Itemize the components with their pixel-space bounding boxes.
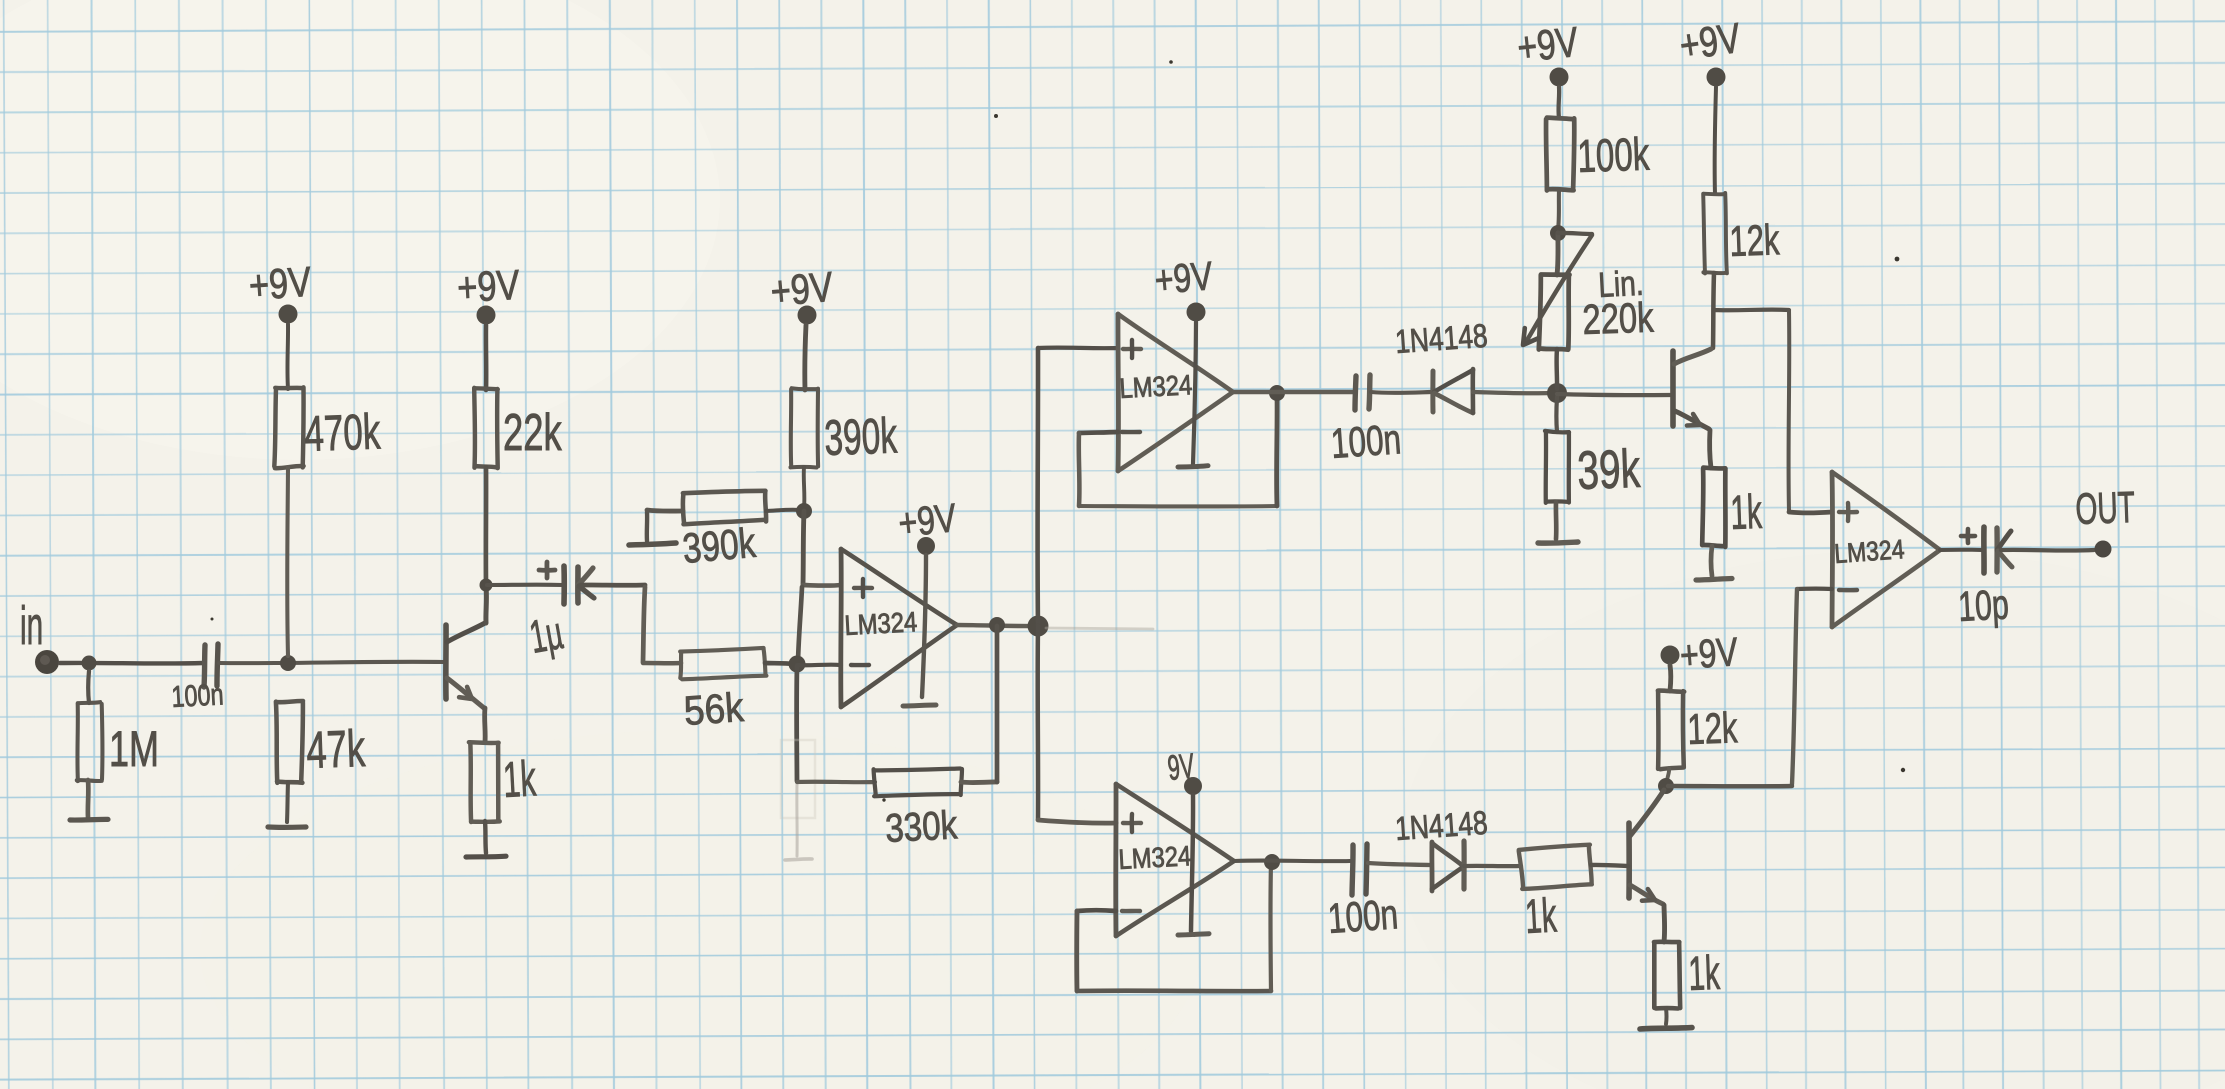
svg-text:12k: 12k [1687,703,1739,753]
wire D1 to pot node [1473,392,1552,393]
wire input to C1 [60,661,203,666]
capacitor C2 1u (polarized) [539,562,594,604]
label 12k (top) [1729,215,1781,265]
svg-text:100k: 100k [1577,129,1651,182]
svg-text:+9V: +9V [1153,253,1215,303]
resistor 12k (top) [1703,193,1727,273]
svg-text:390k: 390k [681,520,758,573]
label 1N4148 (lower) [1394,805,1489,848]
resistor 1k (Q3) [1654,942,1680,1009]
resistor 390k (vertical) [791,388,819,467]
wire corner to U3 [1789,510,1832,516]
wire Q3 node right [1668,784,1792,789]
wire stub to R-390k-h [647,510,683,511]
wire 1M to ground [86,780,91,817]
power +9V (U1) [896,495,958,555]
svg-text:LM324: LM324 [844,605,918,641]
junction U1out/branch [1028,616,1049,637]
label LM324 U4 [1118,839,1192,875]
ground (47k) [268,824,306,830]
label OUT [2075,483,2136,534]
power +9V (12k bottom) [1661,629,1740,678]
wire down right column to U3 +in [1787,311,1792,511]
ground (Q2 1k) [1696,579,1732,581]
wire U2 feedback up [1274,393,1279,506]
wire -node to U1 [797,663,841,668]
op-amp U2 triangle [1118,314,1233,471]
wire 1k to ground (Q3) [1664,1008,1669,1024]
wire 1k to ground [485,821,486,853]
wire +9V to R-100k [1556,87,1561,118]
wire D2 to R-1k [1464,864,1521,869]
label 1k (horizontal) [1524,889,1559,943]
wire U3 out [1940,548,1982,552]
label 1k (Q1) [502,750,538,808]
junction U2 out/feedback [1269,385,1285,401]
transistor Q1 base bar [443,625,449,699]
svg-text:1k: 1k [502,750,538,808]
op-amp U1 triangle [841,549,957,707]
wire U4 feedback bottom [1077,988,1271,993]
wire C1 to Q1 base [219,662,444,663]
diode D2 1N4148 (cathode right) [1432,841,1464,891]
svg-text:100n: 100n [1329,415,1402,467]
wire R-39k to ground [1554,502,1559,539]
svg-text:56k: 56k [683,685,746,734]
ground (1M) [70,817,108,823]
resistor 12k (bottom) [1658,691,1684,770]
op-amp U4 plus [1123,814,1141,832]
svg-text:1M: 1M [109,722,159,777]
capacitor C3 100n [1329,375,1402,467]
wire Q1 collector to node A [483,587,489,623]
label 1k (Q3) [1688,947,1722,1001]
svg-text:+9V: +9V [247,259,313,310]
svg-text:+9V: +9V [456,262,521,312]
ground bar (U1 Vminus) [903,705,936,706]
wire 1k to ground (Q2) [1711,546,1712,576]
ground (39k) [1538,542,1578,543]
resistor 56k (horizontal) [679,648,766,679]
svg-text:LM324: LM324 [1118,839,1192,875]
wire +9V to R-390k-v [805,325,806,390]
transistor Q3 collector [1630,790,1664,836]
wire U3 minus left [1797,587,1832,592]
svg-text:1k: 1k [1730,486,1764,540]
transistor Q1 emitter [447,678,484,708]
potentiometer 220k body [1539,274,1570,350]
wire +corner down to -node [798,587,802,662]
capacitor C5 10p (polarized) [1961,527,2012,573]
ground (Q3 1k) [1640,1028,1692,1029]
label 1u [526,607,567,664]
junction U1out/330k [989,617,1005,633]
svg-text:+9V: +9V [1678,629,1739,678]
svg-text:220k: 220k [1582,294,1655,343]
ground bar (U4 Vminus) [1178,934,1209,935]
capacitor C1 100n [171,644,225,714]
stub of R-390k-h (open end) [645,512,650,541]
wire 330k-right [961,780,997,785]
wire corner to U2 [1038,346,1118,351]
wire U4 feedback down [1074,911,1079,991]
svg-text:10p: 10p [1957,581,2010,631]
transistor Q2 base bar [1670,351,1676,426]
label 39k [1576,437,1641,500]
label LM324 U2 [1119,368,1193,404]
power +9V (22k column) [456,262,521,325]
wire collector node right [1714,308,1789,313]
wire -node down to R-330k [794,666,799,781]
wire Q1 emitter to R-1k [482,708,487,742]
svg-text:100n: 100n [1326,890,1399,942]
wire U3 fb bottom to 12k node [1668,784,1792,788]
wire corner down to 56k [643,587,645,662]
wire +9V through U2 [1193,322,1196,464]
wire R-12k to collector node [1713,273,1714,348]
junction -input U1 / 56k [789,656,806,673]
svg-text:1k: 1k [1524,889,1559,943]
svg-text:100n: 100n [171,678,225,714]
op-amp U2 plus [1123,340,1141,358]
wire C3 to D1 [1371,390,1431,395]
resistor 390k (horizontal) [683,491,767,525]
wire R-1k to Q3 base [1591,865,1628,866]
wire U4 feedback up [1268,862,1273,991]
label 220k [1582,294,1655,343]
op-amp U2 minus [1122,430,1140,434]
wire branch down [1035,626,1040,819]
faint stub below 330k [785,784,812,860]
power +9V (12k top) [1677,15,1744,86]
resistor 470k [274,387,303,468]
svg-text:12k: 12k [1729,215,1781,265]
wire pot bottom to diode node [1554,349,1559,389]
label 10p [1957,581,2010,631]
op-amp U1 minus [851,663,869,668]
label 330k [884,802,959,850]
wire C5 to OUT [2001,548,2094,553]
node A (Q1 collector junction) [480,579,493,592]
junction 100k/pot/wiper [1550,225,1566,241]
op-amp U3 plus [1839,503,1857,521]
label 100k [1577,129,1651,182]
wire U2 out [1233,390,1353,395]
node in (input pad) [20,597,59,674]
wire R-100k to pot [1558,190,1559,230]
wire Q3 emitter down [1662,905,1668,942]
svg-text:LM324: LM324 [1833,534,1905,569]
wire Q2 emitter to R-1k [1710,430,1711,468]
op-amp U3 triangle [1832,472,1940,627]
ground bar (U2 Vminus) [1178,466,1208,467]
pot wiper arrow [1523,328,1539,345]
op-amp U3 minus [1839,588,1857,593]
power +9V (100k column) [1515,19,1581,86]
wire R-12k to collector node (Q3) [1667,768,1669,782]
wire U2 feedback left [1079,432,1118,433]
label 47k [305,718,366,779]
power +9V (470k column) [247,259,313,324]
resistor 47k [276,701,303,783]
wire junction to +input corner [803,511,804,584]
svg-text:47k: 47k [305,718,366,779]
label 1k (Q2) [1730,486,1764,540]
resistor 1k (Q2) [1702,468,1725,547]
label LM324 U1 [844,605,918,641]
wire 47k to ground [287,782,288,822]
svg-text:330k: 330k [884,802,959,850]
wire 330k-left [797,780,875,785]
resistor 1k (horizontal) [1519,845,1593,890]
svg-text:39k: 39k [1576,437,1641,500]
resistor 100k [1546,118,1574,191]
svg-text:1N4148: 1N4148 [1394,318,1489,361]
svg-text:+9V: +9V [1677,15,1744,69]
stub dash [629,543,676,545]
label 12k (bottom) [1687,703,1739,753]
wire U4 out [1234,859,1350,864]
faint continuation of output [1046,628,1153,629]
wire 9V through U4 [1191,795,1193,931]
label 390k (vertical) [823,408,898,467]
junction Q3 collector node [1658,778,1674,794]
transistor Q2 emitter [1675,411,1709,429]
wire U2 feedback bottom [1079,504,1277,509]
wire corner to U4 [1038,820,1116,823]
wire R-390k-h to column [766,510,800,511]
power 9V (U4) [1166,747,1202,795]
junction 390k node [796,503,812,519]
label Lin. [1597,263,1644,305]
wire U1 output [957,625,1040,626]
wire to R-56k [643,661,681,666]
power +9V (390k column) [769,264,835,325]
wire U3 fb down [1792,589,1797,784]
wire C2 to corner [581,583,645,588]
svg-text:1N4148: 1N4148 [1394,805,1489,848]
svg-text:OUT: OUT [2075,483,2136,534]
wire pot node down to R-39k [1554,397,1559,432]
power +9V (U2) [1153,253,1215,322]
svg-text:22k: 22k [503,402,562,461]
op-amp U4 minus [1122,909,1140,913]
wire junction to pot top [1557,233,1558,275]
wire U2 feedback down [1076,433,1081,506]
wire +input U1 [803,583,841,588]
capacitor C4 100n [1326,844,1399,942]
pot wiper wire [1526,233,1592,342]
wire C4 to D2 [1368,863,1430,865]
junction input/R-1M [82,656,97,671]
wire +9V to R-12k [1715,87,1716,194]
label 56k [683,685,746,734]
junction pot node [1547,383,1567,403]
resistor 330k (feedback) [874,768,963,797]
svg-text:470k: 470k [303,404,381,462]
wire +9V to R-470k [285,324,290,389]
svg-text:+9V: +9V [1515,19,1581,72]
wire 330k up to U1 out [995,626,1000,782]
label 470k [303,404,381,462]
label 390k (horizontal) [681,520,758,573]
wire R-56k to inverting node [765,663,794,664]
wire U4 feedback left [1077,908,1116,913]
op-amp U1 plus [854,579,872,597]
wire R-390k-v to junction [802,467,807,508]
svg-text:390k: 390k [823,408,898,467]
transistor Q1 collector [447,623,485,642]
ground (Q1 1k) [466,854,506,860]
transistor Q3 base bar [1626,823,1632,898]
resistor 1k (Q1) [469,742,500,822]
resistor 1M [77,671,103,781]
op-amp U4 triangle [1116,784,1234,936]
wire +9V to R-12k bottom [1668,665,1674,691]
label 22k [503,402,562,461]
resistor 39k [1545,431,1569,503]
wire pot node to Q2 base [1557,394,1670,395]
wire branch up to U2 +in [1035,348,1040,626]
label 1M [109,722,159,777]
label 1N4148 (upper) [1394,318,1489,361]
node OUT pad [2095,541,2112,558]
junction U4 out/feedback [1264,854,1280,870]
wire R-470k to input wire [285,467,290,656]
transistor Q3 emitter [1630,885,1663,904]
wire node A to C2 [487,583,563,587]
diode D1 1N4148 (cathode left) [1433,369,1473,413]
wire +9V to R-22k [484,325,489,390]
wire +9V through U1 [922,555,926,697]
wire R-22k to node A [484,467,489,583]
resistor 22k [474,388,498,468]
svg-text:LM324: LM324 [1119,368,1193,404]
svg-text:in: in [20,597,43,656]
svg-text:1k: 1k [1688,947,1722,1001]
junction 470k/47k on input wire [280,655,296,671]
transistor Q2 collector [1674,349,1711,364]
label LM324 U3 [1833,534,1905,569]
ghost erased box [781,740,815,818]
